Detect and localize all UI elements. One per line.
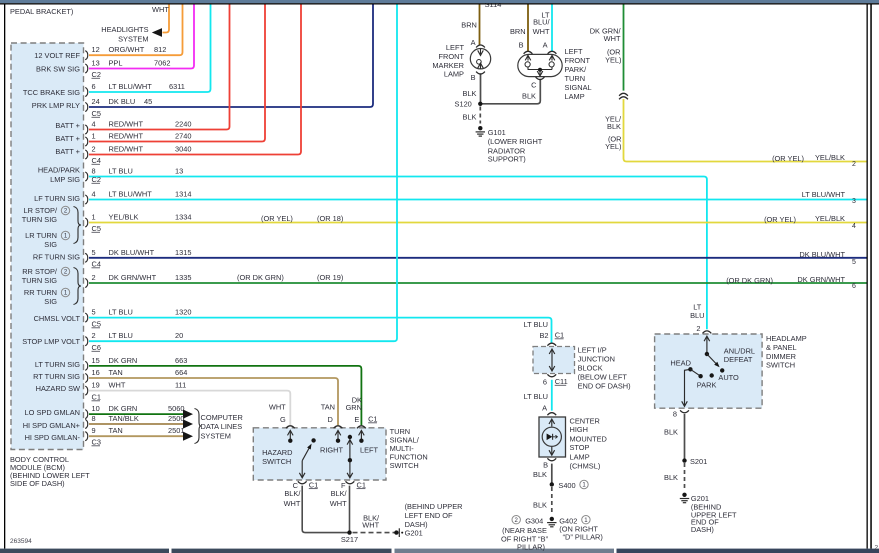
svg-text:24: 24 bbox=[92, 97, 100, 106]
svg-text:4: 4 bbox=[92, 190, 96, 199]
svg-text:LT BLU/WHT: LT BLU/WHT bbox=[109, 82, 153, 91]
svg-text:RIGHT: RIGHT bbox=[320, 446, 343, 455]
svg-text:(BEHIND UPPER: (BEHIND UPPER bbox=[405, 502, 463, 511]
svg-text:RT TURN SIG: RT TURN SIG bbox=[33, 372, 80, 381]
svg-text:C3: C3 bbox=[92, 438, 101, 447]
svg-text:16: 16 bbox=[92, 368, 100, 377]
svg-text:RED/WHT: RED/WHT bbox=[109, 132, 144, 141]
svg-text:JUNCTION: JUNCTION bbox=[578, 355, 615, 364]
svg-text:5: 5 bbox=[852, 259, 856, 266]
svg-text:G101: G101 bbox=[488, 128, 506, 137]
svg-text:PPL: PPL bbox=[109, 59, 123, 68]
svg-text:663: 663 bbox=[175, 356, 187, 365]
svg-text:2: 2 bbox=[875, 545, 879, 552]
svg-text:C4: C4 bbox=[92, 156, 101, 165]
svg-text:DK BLU/WHT: DK BLU/WHT bbox=[109, 248, 155, 257]
svg-text:BLK: BLK bbox=[533, 500, 547, 509]
svg-text:10: 10 bbox=[92, 404, 100, 413]
svg-text:FRONT: FRONT bbox=[565, 56, 591, 65]
svg-text:812: 812 bbox=[154, 45, 166, 54]
svg-text:COMPUTER: COMPUTER bbox=[201, 413, 243, 422]
svg-text:B: B bbox=[543, 461, 548, 470]
svg-text:C1: C1 bbox=[357, 480, 366, 489]
svg-text:19: 19 bbox=[92, 381, 100, 390]
svg-text:4: 4 bbox=[92, 120, 96, 129]
svg-text:6: 6 bbox=[543, 378, 547, 387]
svg-text:TAN/BLK: TAN/BLK bbox=[109, 414, 139, 423]
svg-text:SWITCH: SWITCH bbox=[766, 361, 795, 370]
svg-text:SYSTEM: SYSTEM bbox=[201, 432, 231, 441]
svg-text:AUTO: AUTO bbox=[718, 373, 739, 382]
svg-text:S120: S120 bbox=[455, 99, 472, 108]
svg-text:2: 2 bbox=[696, 324, 700, 333]
svg-text:6311: 6311 bbox=[169, 82, 185, 91]
svg-text:(OR 18): (OR 18) bbox=[317, 214, 343, 223]
svg-text:TURN SIG: TURN SIG bbox=[22, 215, 58, 224]
svg-text:PILLAR): PILLAR) bbox=[517, 543, 545, 552]
svg-text:3040: 3040 bbox=[175, 145, 191, 154]
svg-text:BLK/: BLK/ bbox=[284, 489, 301, 498]
svg-text:E: E bbox=[354, 415, 359, 424]
svg-text:5: 5 bbox=[92, 308, 96, 317]
svg-text:ORG/WHT: ORG/WHT bbox=[109, 45, 145, 54]
svg-text:HAZARD SW: HAZARD SW bbox=[36, 384, 80, 393]
svg-text:TURN SIG: TURN SIG bbox=[22, 276, 58, 285]
svg-text:BLOCK: BLOCK bbox=[578, 364, 603, 373]
svg-text:A: A bbox=[471, 38, 476, 47]
svg-text:(OR DK GRN): (OR DK GRN) bbox=[726, 276, 773, 285]
svg-text:LR STOP/: LR STOP/ bbox=[23, 206, 57, 215]
svg-text:CHMSL VOLT: CHMSL VOLT bbox=[34, 314, 81, 323]
svg-text:DEFEAT: DEFEAT bbox=[724, 355, 753, 364]
svg-text:LT BLU: LT BLU bbox=[109, 308, 133, 317]
svg-text:YEL/BLK: YEL/BLK bbox=[815, 214, 845, 223]
svg-text:LR TURN: LR TURN bbox=[25, 231, 57, 240]
svg-text:5: 5 bbox=[92, 248, 96, 257]
svg-text:WHT: WHT bbox=[109, 381, 126, 390]
svg-text:6: 6 bbox=[852, 283, 856, 290]
svg-text:2: 2 bbox=[92, 331, 96, 340]
svg-text:(OR YEL): (OR YEL) bbox=[261, 214, 293, 223]
svg-text:TAN: TAN bbox=[321, 403, 335, 412]
svg-text:PARK/: PARK/ bbox=[565, 65, 588, 74]
svg-text:B2: B2 bbox=[539, 331, 548, 340]
svg-text:12 VOLT REF: 12 VOLT REF bbox=[34, 51, 80, 60]
svg-text:A: A bbox=[543, 41, 548, 50]
svg-text:SYSTEM: SYSTEM bbox=[118, 35, 148, 44]
svg-text:(OR YEL): (OR YEL) bbox=[764, 215, 796, 224]
svg-text:HI SPD GMLAN+: HI SPD GMLAN+ bbox=[23, 421, 80, 430]
svg-text:BLK: BLK bbox=[463, 89, 477, 98]
svg-text:D: D bbox=[327, 415, 332, 424]
svg-text:BRK SW SIG: BRK SW SIG bbox=[36, 65, 80, 74]
svg-text:YEL): YEL) bbox=[605, 142, 621, 151]
svg-text:MARKER: MARKER bbox=[432, 61, 464, 70]
svg-text:BLK: BLK bbox=[664, 473, 678, 482]
svg-text:1320: 1320 bbox=[175, 308, 191, 317]
svg-text:LF TURN SIG: LF TURN SIG bbox=[34, 194, 80, 203]
svg-text:DK GRN/WHT: DK GRN/WHT bbox=[109, 273, 157, 282]
svg-text:LEFT: LEFT bbox=[565, 47, 584, 56]
svg-text:WHT: WHT bbox=[284, 499, 301, 508]
svg-text:BRN: BRN bbox=[510, 27, 526, 36]
svg-text:13: 13 bbox=[92, 59, 100, 68]
svg-text:6: 6 bbox=[92, 82, 96, 91]
svg-text:(BELOW LEFT: (BELOW LEFT bbox=[578, 373, 628, 382]
svg-text:B: B bbox=[519, 41, 524, 50]
svg-text:STOP LMP VOLT: STOP LMP VOLT bbox=[22, 337, 80, 346]
svg-text:WHT: WHT bbox=[362, 520, 379, 529]
svg-text:LAMP: LAMP bbox=[565, 92, 585, 101]
svg-text:1334: 1334 bbox=[175, 213, 191, 222]
svg-text:DK BLU/WHT: DK BLU/WHT bbox=[799, 250, 845, 259]
svg-text:SIG: SIG bbox=[44, 240, 57, 249]
svg-text:12: 12 bbox=[92, 45, 100, 54]
svg-text:45: 45 bbox=[144, 97, 152, 106]
svg-text:LAMP: LAMP bbox=[570, 453, 590, 462]
svg-text:LT BLU: LT BLU bbox=[109, 331, 133, 340]
svg-text:7062: 7062 bbox=[154, 59, 170, 68]
svg-text:BATT +: BATT + bbox=[55, 147, 80, 156]
svg-text:WHT: WHT bbox=[604, 34, 621, 43]
svg-text:2740: 2740 bbox=[175, 132, 191, 141]
svg-text:BRN: BRN bbox=[461, 20, 477, 29]
svg-text:2501: 2501 bbox=[168, 426, 184, 435]
svg-text:BLK: BLK bbox=[607, 122, 621, 131]
svg-text:WHT: WHT bbox=[330, 499, 347, 508]
svg-text:G201: G201 bbox=[405, 529, 423, 538]
svg-text:1315: 1315 bbox=[175, 248, 191, 257]
svg-text:B: B bbox=[471, 73, 476, 82]
svg-text:1314: 1314 bbox=[175, 190, 191, 199]
svg-text:20: 20 bbox=[175, 331, 183, 340]
svg-text:LT BLU: LT BLU bbox=[524, 392, 548, 401]
svg-text:(OR YEL): (OR YEL) bbox=[772, 154, 804, 163]
svg-text:C1: C1 bbox=[368, 415, 377, 424]
svg-text:LT BLU/WHT: LT BLU/WHT bbox=[802, 190, 846, 199]
svg-text:YEL): YEL) bbox=[605, 56, 621, 65]
svg-text:TAN: TAN bbox=[109, 368, 123, 377]
svg-text:BLU/: BLU/ bbox=[533, 18, 550, 27]
svg-text:1335: 1335 bbox=[175, 273, 191, 282]
svg-text:LEFT I/P: LEFT I/P bbox=[578, 346, 607, 355]
svg-text:RED/WHT: RED/WHT bbox=[109, 120, 144, 129]
svg-text:STOP: STOP bbox=[570, 443, 590, 452]
svg-text:DASH): DASH) bbox=[405, 520, 428, 529]
svg-text:HAZARD: HAZARD bbox=[262, 448, 292, 457]
svg-text:END OF DASH): END OF DASH) bbox=[578, 382, 631, 391]
svg-text:GRN: GRN bbox=[346, 403, 362, 412]
svg-text:PARK: PARK bbox=[697, 381, 717, 390]
svg-text:C2: C2 bbox=[92, 175, 101, 184]
svg-text:(OR 19): (OR 19) bbox=[317, 273, 343, 282]
svg-text:LAMP: LAMP bbox=[444, 70, 464, 79]
svg-text:RR STOP/: RR STOP/ bbox=[22, 267, 58, 276]
svg-text:13: 13 bbox=[175, 167, 183, 176]
svg-text:S217: S217 bbox=[341, 535, 358, 544]
svg-text:2240: 2240 bbox=[175, 120, 191, 129]
svg-text:SIG: SIG bbox=[44, 297, 57, 306]
svg-text:C2: C2 bbox=[92, 70, 101, 79]
svg-text:8: 8 bbox=[673, 410, 677, 419]
svg-text:S201: S201 bbox=[690, 457, 707, 466]
svg-text:(OR DK GRN): (OR DK GRN) bbox=[237, 273, 284, 282]
svg-text:(LOWER RIGHT: (LOWER RIGHT bbox=[488, 137, 543, 146]
svg-text:C11: C11 bbox=[555, 377, 568, 386]
svg-text:SIGNAL: SIGNAL bbox=[565, 83, 592, 92]
svg-text:HEADLAMP: HEADLAMP bbox=[766, 334, 807, 343]
svg-text:BATT +: BATT + bbox=[55, 121, 80, 130]
svg-text:A: A bbox=[542, 404, 547, 413]
svg-text:111: 111 bbox=[175, 381, 186, 390]
svg-text:HEAD: HEAD bbox=[670, 359, 691, 368]
svg-text:C1: C1 bbox=[309, 480, 318, 489]
svg-text:WHT: WHT bbox=[152, 5, 169, 14]
svg-text:BLK: BLK bbox=[463, 113, 477, 122]
svg-text:PEDAL BRACKET): PEDAL BRACKET) bbox=[10, 7, 73, 16]
svg-text:“D” PILLAR): “D” PILLAR) bbox=[563, 533, 603, 542]
svg-text:SIDE OF DASH): SIDE OF DASH) bbox=[10, 479, 65, 488]
svg-text:BLK: BLK bbox=[664, 427, 678, 436]
svg-text:BATT +: BATT + bbox=[55, 134, 80, 143]
svg-text:DK GRN: DK GRN bbox=[109, 356, 138, 365]
svg-text:HEADLIGHTS: HEADLIGHTS bbox=[101, 25, 148, 34]
svg-text:C1: C1 bbox=[92, 393, 101, 402]
svg-text:BLK: BLK bbox=[533, 470, 547, 479]
svg-text:WHT: WHT bbox=[533, 27, 550, 36]
svg-text:SWITCH: SWITCH bbox=[262, 457, 291, 466]
svg-text:664: 664 bbox=[175, 368, 187, 377]
svg-text:DK GRN/WHT: DK GRN/WHT bbox=[797, 275, 845, 284]
svg-text:2: 2 bbox=[852, 161, 856, 168]
svg-text:9: 9 bbox=[92, 426, 96, 435]
svg-text:TURN: TURN bbox=[565, 74, 586, 83]
svg-text:LEFT: LEFT bbox=[446, 43, 465, 52]
svg-text:HIGH: HIGH bbox=[570, 425, 588, 434]
svg-text:LT TURN SIG: LT TURN SIG bbox=[35, 360, 80, 369]
svg-text:BLK: BLK bbox=[522, 92, 536, 101]
svg-text:HI SPD GMLAN-: HI SPD GMLAN- bbox=[25, 433, 81, 442]
svg-text:S400: S400 bbox=[558, 481, 575, 490]
svg-text:C1: C1 bbox=[555, 331, 564, 340]
svg-text:WHT: WHT bbox=[269, 403, 286, 412]
svg-text:LO SPD GMLAN: LO SPD GMLAN bbox=[25, 408, 80, 417]
svg-text:LT BLU: LT BLU bbox=[524, 320, 548, 329]
svg-text:LEFT END OF: LEFT END OF bbox=[405, 511, 453, 520]
svg-text:YEL/BLK: YEL/BLK bbox=[109, 213, 139, 222]
svg-text:1: 1 bbox=[92, 132, 96, 141]
svg-text:PRK LMP RLY: PRK LMP RLY bbox=[32, 101, 80, 110]
svg-text:DK GRN: DK GRN bbox=[109, 404, 138, 413]
svg-text:DK BLU: DK BLU bbox=[109, 97, 136, 106]
svg-text:C5: C5 bbox=[92, 109, 101, 118]
svg-text:C5: C5 bbox=[92, 224, 101, 233]
svg-text:263594: 263594 bbox=[10, 538, 32, 545]
svg-text:1: 1 bbox=[92, 213, 96, 222]
svg-text:C6: C6 bbox=[92, 343, 101, 352]
svg-text:4: 4 bbox=[852, 223, 856, 230]
svg-text:DASH): DASH) bbox=[691, 525, 714, 534]
svg-text:2: 2 bbox=[92, 145, 96, 154]
svg-text:SWITCH: SWITCH bbox=[390, 461, 419, 470]
svg-text:TCC BRAKE SIG: TCC BRAKE SIG bbox=[23, 88, 80, 97]
svg-text:G: G bbox=[280, 415, 286, 424]
svg-text:3: 3 bbox=[852, 198, 856, 205]
svg-text:RF TURN SIG: RF TURN SIG bbox=[33, 253, 80, 262]
svg-text:C4: C4 bbox=[92, 260, 101, 269]
svg-text:5060: 5060 bbox=[168, 404, 184, 413]
svg-text:SUPPORT): SUPPORT) bbox=[488, 155, 526, 164]
svg-text:LT BLU: LT BLU bbox=[109, 167, 133, 176]
svg-text:LEFT: LEFT bbox=[360, 446, 379, 455]
svg-text:FRONT: FRONT bbox=[439, 52, 465, 61]
svg-text:LT BLU/WHT: LT BLU/WHT bbox=[109, 190, 153, 199]
svg-text:2: 2 bbox=[92, 273, 96, 282]
svg-text:C: C bbox=[531, 80, 537, 89]
svg-text:YEL/BLK: YEL/BLK bbox=[815, 153, 845, 162]
svg-text:RED/WHT: RED/WHT bbox=[109, 145, 144, 154]
svg-text:8: 8 bbox=[92, 414, 96, 423]
svg-text:& PANEL: & PANEL bbox=[766, 343, 797, 352]
svg-text:RR TURN: RR TURN bbox=[24, 288, 57, 297]
svg-text:DATA LINES: DATA LINES bbox=[201, 422, 243, 431]
svg-text:TAN: TAN bbox=[109, 426, 123, 435]
svg-text:HEAD/PARK: HEAD/PARK bbox=[38, 166, 80, 175]
svg-text:BLK/: BLK/ bbox=[331, 489, 348, 498]
svg-text:LMP SIG: LMP SIG bbox=[50, 175, 80, 184]
svg-text:BLU: BLU bbox=[690, 311, 704, 320]
svg-text:2500: 2500 bbox=[168, 414, 184, 423]
svg-text:C5: C5 bbox=[92, 320, 101, 329]
svg-text:(CHMSL): (CHMSL) bbox=[570, 462, 601, 471]
svg-text:G304: G304 bbox=[525, 517, 543, 526]
svg-text:15: 15 bbox=[92, 356, 100, 365]
